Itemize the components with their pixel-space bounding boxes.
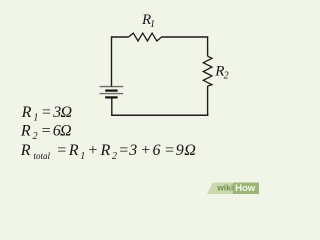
wikiHow watermark How block (233, 183, 259, 195)
svg-text:How: How (235, 183, 256, 194)
svg-text:R2=6Ω: R2=6Ω (20, 122, 72, 142)
resistor R1 (129, 33, 162, 41)
wire: top right horizontal from R1 to top-right corner (162, 36, 208, 38)
wire: right vertical lower (R2 to bottom-right corner) (207, 86, 209, 116)
battery V1 short plate (inner, negative) (105, 89, 117, 91)
battery V1 short plate (bottom, negative) (105, 96, 117, 98)
svg-text:R1: R1 (141, 12, 155, 30)
svg-text:R1=3Ω: R1=3Ω (21, 104, 72, 124)
svg-text:R2: R2 (214, 64, 228, 82)
wikiHow watermark badge band (207, 183, 259, 195)
svg-text:wiki: wiki (216, 183, 233, 193)
svg-text:Rtotal=R1+R2=3+6=9Ω: Rtotal=R1+R2=3+6=9Ω (20, 142, 196, 162)
battery V1 long plate (top, positive) (100, 86, 124, 88)
wire: right vertical upper (corner to R2) (207, 36, 209, 56)
wire: left vertical lower (bottom-left corner up to battery) (111, 97, 113, 116)
resistor R2 (203, 56, 212, 86)
wire: top left horizontal from corner to R1 (112, 36, 129, 38)
wire: left vertical upper (battery up to top-left corner) (111, 36, 113, 86)
battery V1 long plate (inner, positive) (100, 93, 124, 95)
wire: bottom horizontal (111, 114, 208, 116)
